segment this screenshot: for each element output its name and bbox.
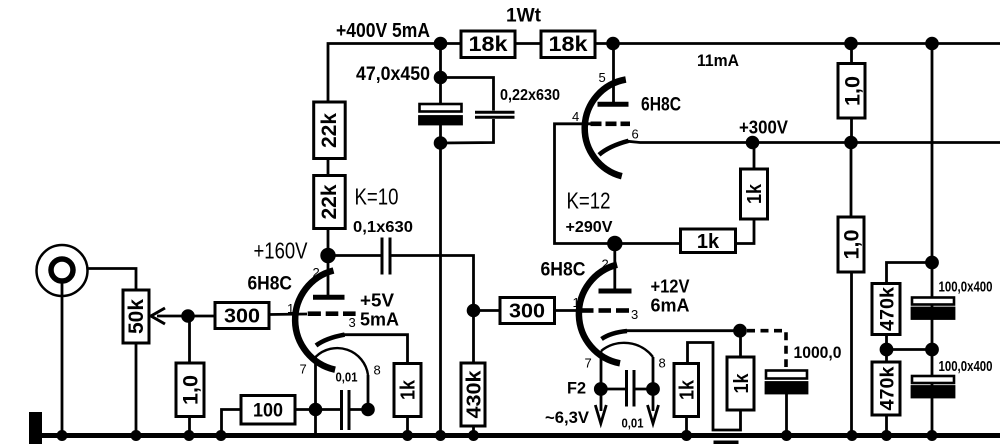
node dot 47,0x450 bottom xyxy=(435,138,446,149)
svg-text:8: 8 xyxy=(374,363,381,378)
resistor R 1,0 first xyxy=(838,64,865,119)
svg-text:4: 4 xyxy=(572,109,579,124)
wire grid node to 300 xyxy=(474,309,501,312)
svg-text:18k: 18k xyxy=(469,33,508,56)
node dot F2 left xyxy=(595,384,606,395)
svg-text:1k: 1k xyxy=(697,231,720,253)
svg-text:8: 8 xyxy=(659,356,666,371)
node dot +290V xyxy=(609,237,622,250)
svg-text:K=12: K=12 xyxy=(567,188,611,214)
svg-text:7: 7 xyxy=(585,356,592,371)
node dot top rail at upper tube plate xyxy=(608,38,619,49)
wire heater pin8 V2a xyxy=(652,357,655,411)
svg-text:1000,0: 1000,0 xyxy=(794,343,842,362)
resistor R 100 hum pot xyxy=(241,396,295,425)
svg-text:+400V 5mA: +400V 5mA xyxy=(336,19,430,42)
capacitor C 0,1x630 plate right xyxy=(389,238,392,275)
wire from rail down to cap node xyxy=(439,44,442,78)
svg-text:22k: 22k xyxy=(318,113,341,148)
wire 0,22x630 loop upper xyxy=(441,78,494,111)
wire 1k top to +300V xyxy=(753,143,756,170)
wire 0,22x630 loop lower xyxy=(441,119,494,143)
tube V2a plate bar xyxy=(599,289,632,294)
svg-text:470k: 470k xyxy=(878,366,899,410)
svg-text:1k: 1k xyxy=(398,379,420,400)
svg-text:+290V: +290V xyxy=(566,219,613,236)
op section: upper triode V1b plate wire xyxy=(612,44,615,105)
wire 1,0 first leads xyxy=(850,44,853,64)
ground terminal block xyxy=(29,412,42,444)
wire 1,0 second top lead xyxy=(850,143,853,218)
svg-text:+160V: +160V xyxy=(254,238,309,264)
node dots on ground bus xyxy=(57,430,938,441)
svg-text:22k: 22k xyxy=(318,184,341,219)
wire right B+ drop x=932 xyxy=(931,44,934,436)
svg-text:11mA: 11mA xyxy=(697,51,739,70)
wire jack hot to 50k top xyxy=(89,269,137,291)
svg-text:1k: 1k xyxy=(744,183,766,204)
svg-text:F2: F2 xyxy=(567,379,586,398)
node dot cathode V2a xyxy=(735,325,746,336)
svg-text:1Wt: 1Wt xyxy=(506,6,542,27)
svg-text:6H8C: 6H8C xyxy=(248,274,293,295)
wire between 22k resistors xyxy=(327,159,330,176)
wire grid leak bottom xyxy=(188,417,191,436)
wire 300 to V2a grid xyxy=(555,309,582,312)
svg-text:5: 5 xyxy=(599,70,606,85)
wire top rail right segment xyxy=(595,42,1000,45)
wire 470k lower bottom to ground xyxy=(885,415,888,436)
wire cap to dot right xyxy=(349,408,368,411)
wire +290V dot to 1k horizontal xyxy=(615,242,681,245)
wire 470k upper bottom xyxy=(885,335,888,363)
tube V1a anode plate bar xyxy=(313,295,345,300)
node dot cap bank top xyxy=(927,257,938,268)
wire 1k cathode bottom xyxy=(406,417,409,436)
arrow heater supply left xyxy=(595,405,606,424)
node dot top rail at filter cap xyxy=(435,38,446,49)
capacitor C 100,0x400 upper bottom plate xyxy=(912,308,954,319)
arrow heater supply right xyxy=(648,405,659,424)
tube V1a plate wire xyxy=(327,255,330,297)
node dot divider left xyxy=(881,344,892,355)
tube V2a envelope arc xyxy=(579,265,620,364)
svg-text:0,1x630: 0,1x630 xyxy=(353,219,413,236)
svg-text:300: 300 xyxy=(224,306,260,328)
resistor R 300 grid stopper V2a xyxy=(500,298,555,324)
pin labels upper tube xyxy=(572,70,639,142)
resistor R 1,0 grid leak xyxy=(176,363,204,417)
resistor R 22k upper xyxy=(314,102,346,159)
wire 300 to grid xyxy=(269,313,307,316)
capacitor C 100,0x400 lower bottom plate xyxy=(912,387,954,398)
wire between heater dots xyxy=(316,408,342,411)
svg-text:50k: 50k xyxy=(125,299,148,334)
resistor R 300 grid stopper V1a xyxy=(215,303,269,329)
wire heater pin7 V1a down xyxy=(314,356,317,436)
node dot top rail at cap bank xyxy=(927,38,938,49)
node dot divider right xyxy=(927,344,938,355)
tube V2a heater filament arc xyxy=(601,343,653,357)
potentiometer R 50k body xyxy=(123,290,149,343)
ground bus bar xyxy=(42,433,1000,438)
wire 100 left lead to ground xyxy=(222,410,242,436)
resistor R 1k horizontal xyxy=(681,229,736,253)
svg-text:6: 6 xyxy=(632,127,639,142)
wire 1000,0 to ground xyxy=(785,393,788,436)
wire V1b cathode to +300V rail xyxy=(627,141,1000,142)
resistor R 1k cathode V1a xyxy=(394,364,421,417)
svg-text:6mA: 6mA xyxy=(651,296,690,316)
svg-text:18k: 18k xyxy=(549,33,588,56)
svg-text:3: 3 xyxy=(631,307,638,322)
wire 1,0 second bottom lead to ground xyxy=(850,272,853,436)
capacitor C 0,22x630 plate lower xyxy=(475,116,515,119)
resistor R 18k first xyxy=(461,31,515,58)
svg-text:~6,3V: ~6,3V xyxy=(545,408,590,427)
capacitor C 0,22x630 plate upper xyxy=(475,111,515,114)
tube V1b cathode xyxy=(599,141,629,155)
svg-text:1: 1 xyxy=(287,301,294,316)
capacitor C 47,0x450 electrolytic bottom plate xyxy=(420,117,462,125)
node dot heater right xyxy=(363,404,374,415)
wire 1k bottom to corner xyxy=(736,219,755,244)
capacitor C 1000,0 bottom plate xyxy=(766,383,807,394)
wire ground drop from filter caps x=440 xyxy=(439,143,442,436)
svg-text:1,0: 1,0 xyxy=(180,375,203,405)
capacitor C 0,1x630 coupling lead left xyxy=(328,254,382,257)
input RCA jack inner ring xyxy=(51,259,73,281)
svg-text:1k: 1k xyxy=(677,379,699,400)
wire 0,1x630 to V2a grid node xyxy=(390,256,474,311)
svg-text:+300V: +300V xyxy=(739,118,788,138)
wire heater pin8 V1a down xyxy=(367,375,370,410)
svg-text:100,0x400: 100,0x400 xyxy=(939,280,993,296)
svg-text:430k: 430k xyxy=(464,370,486,419)
resistor R 1k cathode right xyxy=(727,357,754,410)
svg-text:1k: 1k xyxy=(731,373,753,394)
wire grid pin4 feedback to +290V node xyxy=(555,124,615,244)
svg-text:1: 1 xyxy=(573,295,580,310)
wire +290V dot down to V2a plate xyxy=(613,244,616,292)
wire V2a cathode to 1k node xyxy=(625,329,740,332)
resistor R 1,0 second xyxy=(838,217,864,272)
wire top B+ rail left segment xyxy=(328,44,461,103)
svg-text:100: 100 xyxy=(253,401,283,422)
wire heater pin7 V2a xyxy=(600,351,603,411)
resistor R 470k lower xyxy=(872,362,900,415)
resistor R 430k xyxy=(461,363,485,426)
tube V1a heater filament arc xyxy=(316,348,369,375)
capacitor C 0,01 heater bypass V1a plate left xyxy=(340,390,343,430)
wire cap leads xyxy=(439,78,442,105)
svg-text:1,0: 1,0 xyxy=(842,76,865,106)
wire 430k top xyxy=(472,311,475,364)
svg-text:2: 2 xyxy=(313,265,320,280)
wire top rail between 18k resistors xyxy=(515,42,541,45)
svg-text:5mA: 5mA xyxy=(360,310,399,330)
wire 22k to +160V node xyxy=(327,229,330,256)
svg-text:470k: 470k xyxy=(878,287,899,331)
capacitor C 100,0x400 upper top plate xyxy=(912,298,954,305)
pin labels tube V2a xyxy=(573,257,666,371)
resistor R 1k vertical SRPP xyxy=(741,169,768,219)
capacitor C 0,1x630 plate left xyxy=(381,238,384,275)
wire 50k bottom to ground xyxy=(135,343,138,436)
node dot F2 right xyxy=(648,384,659,395)
svg-text:+5V: +5V xyxy=(360,291,394,311)
node dot heater left xyxy=(310,404,321,415)
wire grid leak top xyxy=(188,316,191,363)
wire cap lower lead xyxy=(439,124,442,143)
tube V2a grid dashes xyxy=(581,308,629,313)
capacitor C 1000,0 top plate xyxy=(766,371,807,379)
resistor R 18k second xyxy=(541,31,595,58)
wire 100 right lead xyxy=(295,408,316,411)
input RCA jack outer circle xyxy=(37,245,88,296)
wire divider link xyxy=(887,348,933,351)
svg-text:K=10: K=10 xyxy=(355,184,399,210)
wire between F2 dots xyxy=(601,388,627,391)
wire 1,0 first bottom lead xyxy=(850,118,853,143)
tube V1a grid dashes xyxy=(308,311,356,316)
svg-text:100,0x400: 100,0x400 xyxy=(939,359,993,375)
chassis stub bottom center xyxy=(714,441,739,444)
wire wiper to grid node xyxy=(157,315,215,318)
node dot 47,0x450 top xyxy=(435,72,446,83)
capacitor C 0,01 heater V2 plate right xyxy=(633,370,636,407)
svg-text:47,0x450: 47,0x450 xyxy=(356,64,430,85)
svg-text:7: 7 xyxy=(300,362,307,377)
svg-text:0,22x630: 0,22x630 xyxy=(500,87,560,104)
tube V1b grid dashes pin 4 xyxy=(591,122,631,127)
svg-text:6H8C: 6H8C xyxy=(641,95,681,116)
tube V1a cathode xyxy=(316,335,345,346)
wire 1k left bottom to ground xyxy=(685,417,688,436)
resistor R 1k cathode left xyxy=(674,364,699,417)
svg-text:300: 300 xyxy=(509,301,545,323)
svg-text:6H8C: 6H8C xyxy=(541,260,586,281)
pin labels tube V1a xyxy=(287,265,381,378)
svg-text:0,01: 0,01 xyxy=(336,371,358,385)
svg-text:3: 3 xyxy=(349,315,356,330)
tube V1b anode plate bar xyxy=(598,102,629,107)
wire jack ground down xyxy=(61,284,64,436)
wire S-link 1k right bottom to 1k left top xyxy=(688,343,741,431)
svg-text:+12V: +12V xyxy=(651,277,690,297)
node dot V2a grid node xyxy=(468,305,479,316)
resistor R 22k lower xyxy=(314,176,346,229)
node dot +160V xyxy=(322,249,335,262)
wire 430k bottom xyxy=(472,426,475,436)
node dot top rail at 1,0 resistor xyxy=(846,38,857,49)
svg-text:0,01: 0,01 xyxy=(622,417,644,431)
node dot +300V at 1k xyxy=(747,137,758,148)
wire dashed to 1000,0 xyxy=(747,331,786,367)
potentiometer wiper arrow xyxy=(151,308,165,324)
capacitor C 0,01 heater V2 plate left xyxy=(625,370,628,407)
tube V2a cathode xyxy=(602,331,628,339)
capacitor C 0,01 heater bypass V1a plate right xyxy=(348,390,351,430)
capacitor C 100,0x400 lower top plate xyxy=(912,376,954,383)
resistor R 470k upper xyxy=(872,284,900,335)
tube V1a envelope arc xyxy=(295,271,335,370)
node dot +300V at 1,0 xyxy=(846,137,857,148)
svg-text:2: 2 xyxy=(602,257,609,272)
tube V1b envelope arc xyxy=(585,80,626,177)
svg-text:1,0: 1,0 xyxy=(841,230,864,260)
wire F2 cap right xyxy=(634,388,653,391)
wire cathode dot to 1k right xyxy=(739,331,742,357)
capacitor C 47,0x450 electrolytic top plate xyxy=(420,104,462,112)
node dot wiper junction xyxy=(183,311,194,322)
wire V1a cathode to 1k xyxy=(343,335,408,364)
wire cap bank top link xyxy=(887,263,933,284)
